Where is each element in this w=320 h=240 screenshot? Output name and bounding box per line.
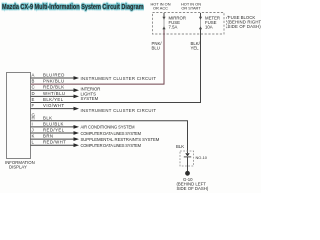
svg-text:COMPUTER DATA LINES SYSTEM: COMPUTER DATA LINES SYSTEM [81,143,142,148]
svg-text:7.5A: 7.5A [169,25,178,30]
ground label G-10 (BEHIND LEFT SIDE OF DASH) [177,177,209,191]
svg-text:DISPLAY: DISPLAY [9,164,27,169]
value label MIRROR FUSE 7.5A [169,16,186,30]
svg-text:PNK/BLU: PNK/BLU [43,79,65,84]
connector terminal symbol [185,153,189,156]
svg-text:D: D [32,91,35,96]
svg-text:AIR CONDITIONING SYSTEM: AIR CONDITIONING SYSTEM [81,125,136,130]
svg-text:RED/YEL: RED/YEL [43,128,65,133]
fuse block (dashed box, behind right side of dash) [153,13,225,35]
wire BLK below connector to ground [187,166,189,172]
svg-text:C: C [32,85,35,90]
wire BLK/YEL from meter fuse to connector pin E [31,30,201,103]
svg-text:INSTRUMENT CLUSTER CIRCUIT: INSTRUMENT CLUSTER CIRCUIT [81,108,157,113]
in-line connector NO-10 (dashed box) [180,151,194,166]
svg-text:BRN: BRN [43,134,53,139]
svg-text:OR ACC: OR ACC [153,6,168,11]
svg-text:VIO/WHT: VIO/WHT [43,103,65,108]
pin A wire BLU/RED to instrument cluster circuit [31,77,74,79]
svg-text:COMPUTER DATA LINES SYSTEM: COMPUTER DATA LINES SYSTEM [81,131,142,136]
svg-text:NO-10: NO-10 [196,155,208,160]
pin F wire VIO/WHT to instrument cluster circuit [31,108,74,110]
label: INFORMATION DISPLAY [5,160,35,170]
fuse F1 MIRROR FUSE 7.5A [163,13,165,34]
fuse F2 METER FUSE 10A [200,13,202,34]
svg-text:OR START: OR START [181,6,201,11]
svg-text:E: E [32,97,35,102]
node label INTERIOR LIGHTS SYSTEM [81,87,101,101]
svg-text:SUPPLEMENTAL RESTRAINTS SYSTEM: SUPPLEMENTAL RESTRAINTS SYSTEM [81,137,160,142]
connector / information display unit box [7,73,31,159]
pin J wire RED/YEL to computer data lines system [31,132,74,134]
svg-text:BLU: BLU [152,46,160,51]
svg-text:WHT/BLU: WHT/BLU [43,91,66,96]
svg-text:BLK: BLK [176,144,184,149]
svg-text:RED/WHT: RED/WHT [43,140,66,145]
pin I wire BLU/BLK to air conditioning system [31,126,74,128]
pin H wire BLK to ground G-10 [31,121,188,153]
svg-text:BLK: BLK [43,115,52,120]
value label METER FUSE 10A [205,16,220,30]
svg-text:SYSTEM: SYSTEM [81,96,99,101]
svg-text:BLU/RED: BLU/RED [43,73,65,78]
svg-text:SIDE OF DASH): SIDE OF DASH) [228,24,262,29]
svg-text:K: K [32,134,35,139]
ground G-10 [185,171,190,176]
svg-text:J: J [32,128,34,133]
pin D wire WHT/BLU to interior lights system [31,95,74,97]
wire PNK/BLU from mirror fuse to connector pin B [31,30,165,84]
svg-text:INSTRUMENT CLUSTER CIRCUIT: INSTRUMENT CLUSTER CIRCUIT [81,76,157,81]
label: HOT IN ON OR ACC [150,1,170,10]
svg-text:L: L [32,140,35,145]
wire label BLK/ YEL [191,41,201,50]
label bracket: FUSE BLOCK (BEHIND RIGHT SIDE OF DASH) [227,16,230,27]
svg-text:BLU/BLK: BLU/BLK [43,121,64,126]
pin K wire BRN to supplemental restraints system [31,138,74,140]
svg-text:BLK/YEL: BLK/YEL [43,97,64,102]
svg-text:B: B [32,79,35,84]
svg-text:YEL: YEL [191,46,200,51]
svg-text:A: A [32,73,35,78]
svg-text:H: H [32,115,35,120]
pin C wire RED/BLK to interior lights system [31,89,74,91]
svg-text:10A: 10A [205,25,213,30]
svg-text:SIDE OF DASH): SIDE OF DASH) [177,186,209,191]
svg-text:RED/BLK: RED/BLK [43,85,65,90]
svg-text:F: F [32,103,35,108]
svg-text:Mazda CX-9 Multi-Information S: Mazda CX-9 Multi-Information System Circ… [2,3,144,11]
wire label PNK/ BLU [152,41,163,50]
svg-text:I: I [32,121,33,126]
label: HOT IN ON OR START [181,1,201,10]
pin L wire RED/WHT to computer data lines system [31,144,74,146]
